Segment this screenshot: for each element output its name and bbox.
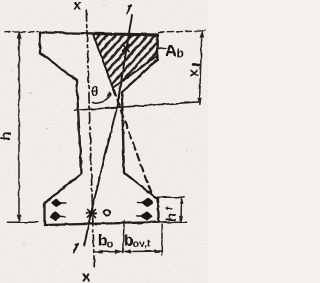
beam cross-section outline — [40, 33, 159, 226]
extension: right — [161, 225, 164, 255]
centroid cross in hatch — [123, 45, 130, 52]
axis x (vertical dash-dot line) — [86, 10, 94, 267]
label 1 (bottom) — [74, 243, 78, 252]
label 1 (top) — [127, 5, 131, 13]
compression zone Ab (hatched) — [93, 34, 157, 88]
small o label — [104, 210, 110, 216]
paper background — [0, 0, 208, 283]
paper grain — [0, 0, 208, 283]
angle theta arc with arrow — [93, 95, 112, 103]
leader line for Ab — [158, 47, 166, 50]
scan specks — [11, 4, 187, 243]
inclined section line 1-1 — [84, 15, 132, 246]
extension: web right edge down — [123, 221, 125, 253]
point marker (force application) — [87, 210, 97, 218]
dashed inclined boundary line — [114, 89, 153, 196]
rebar diamonds — [51, 199, 153, 221]
bottom dimension line b0 / bov,t — [96, 250, 162, 253]
dimension x1: line, arrows, extensions — [199, 31, 202, 105]
horizontal neutral-axis line — [75, 102, 200, 111]
dimension hf: line, arrows, extensions — [180, 198, 183, 223]
dimension h: line, arrows, extensions — [18, 32, 20, 222]
